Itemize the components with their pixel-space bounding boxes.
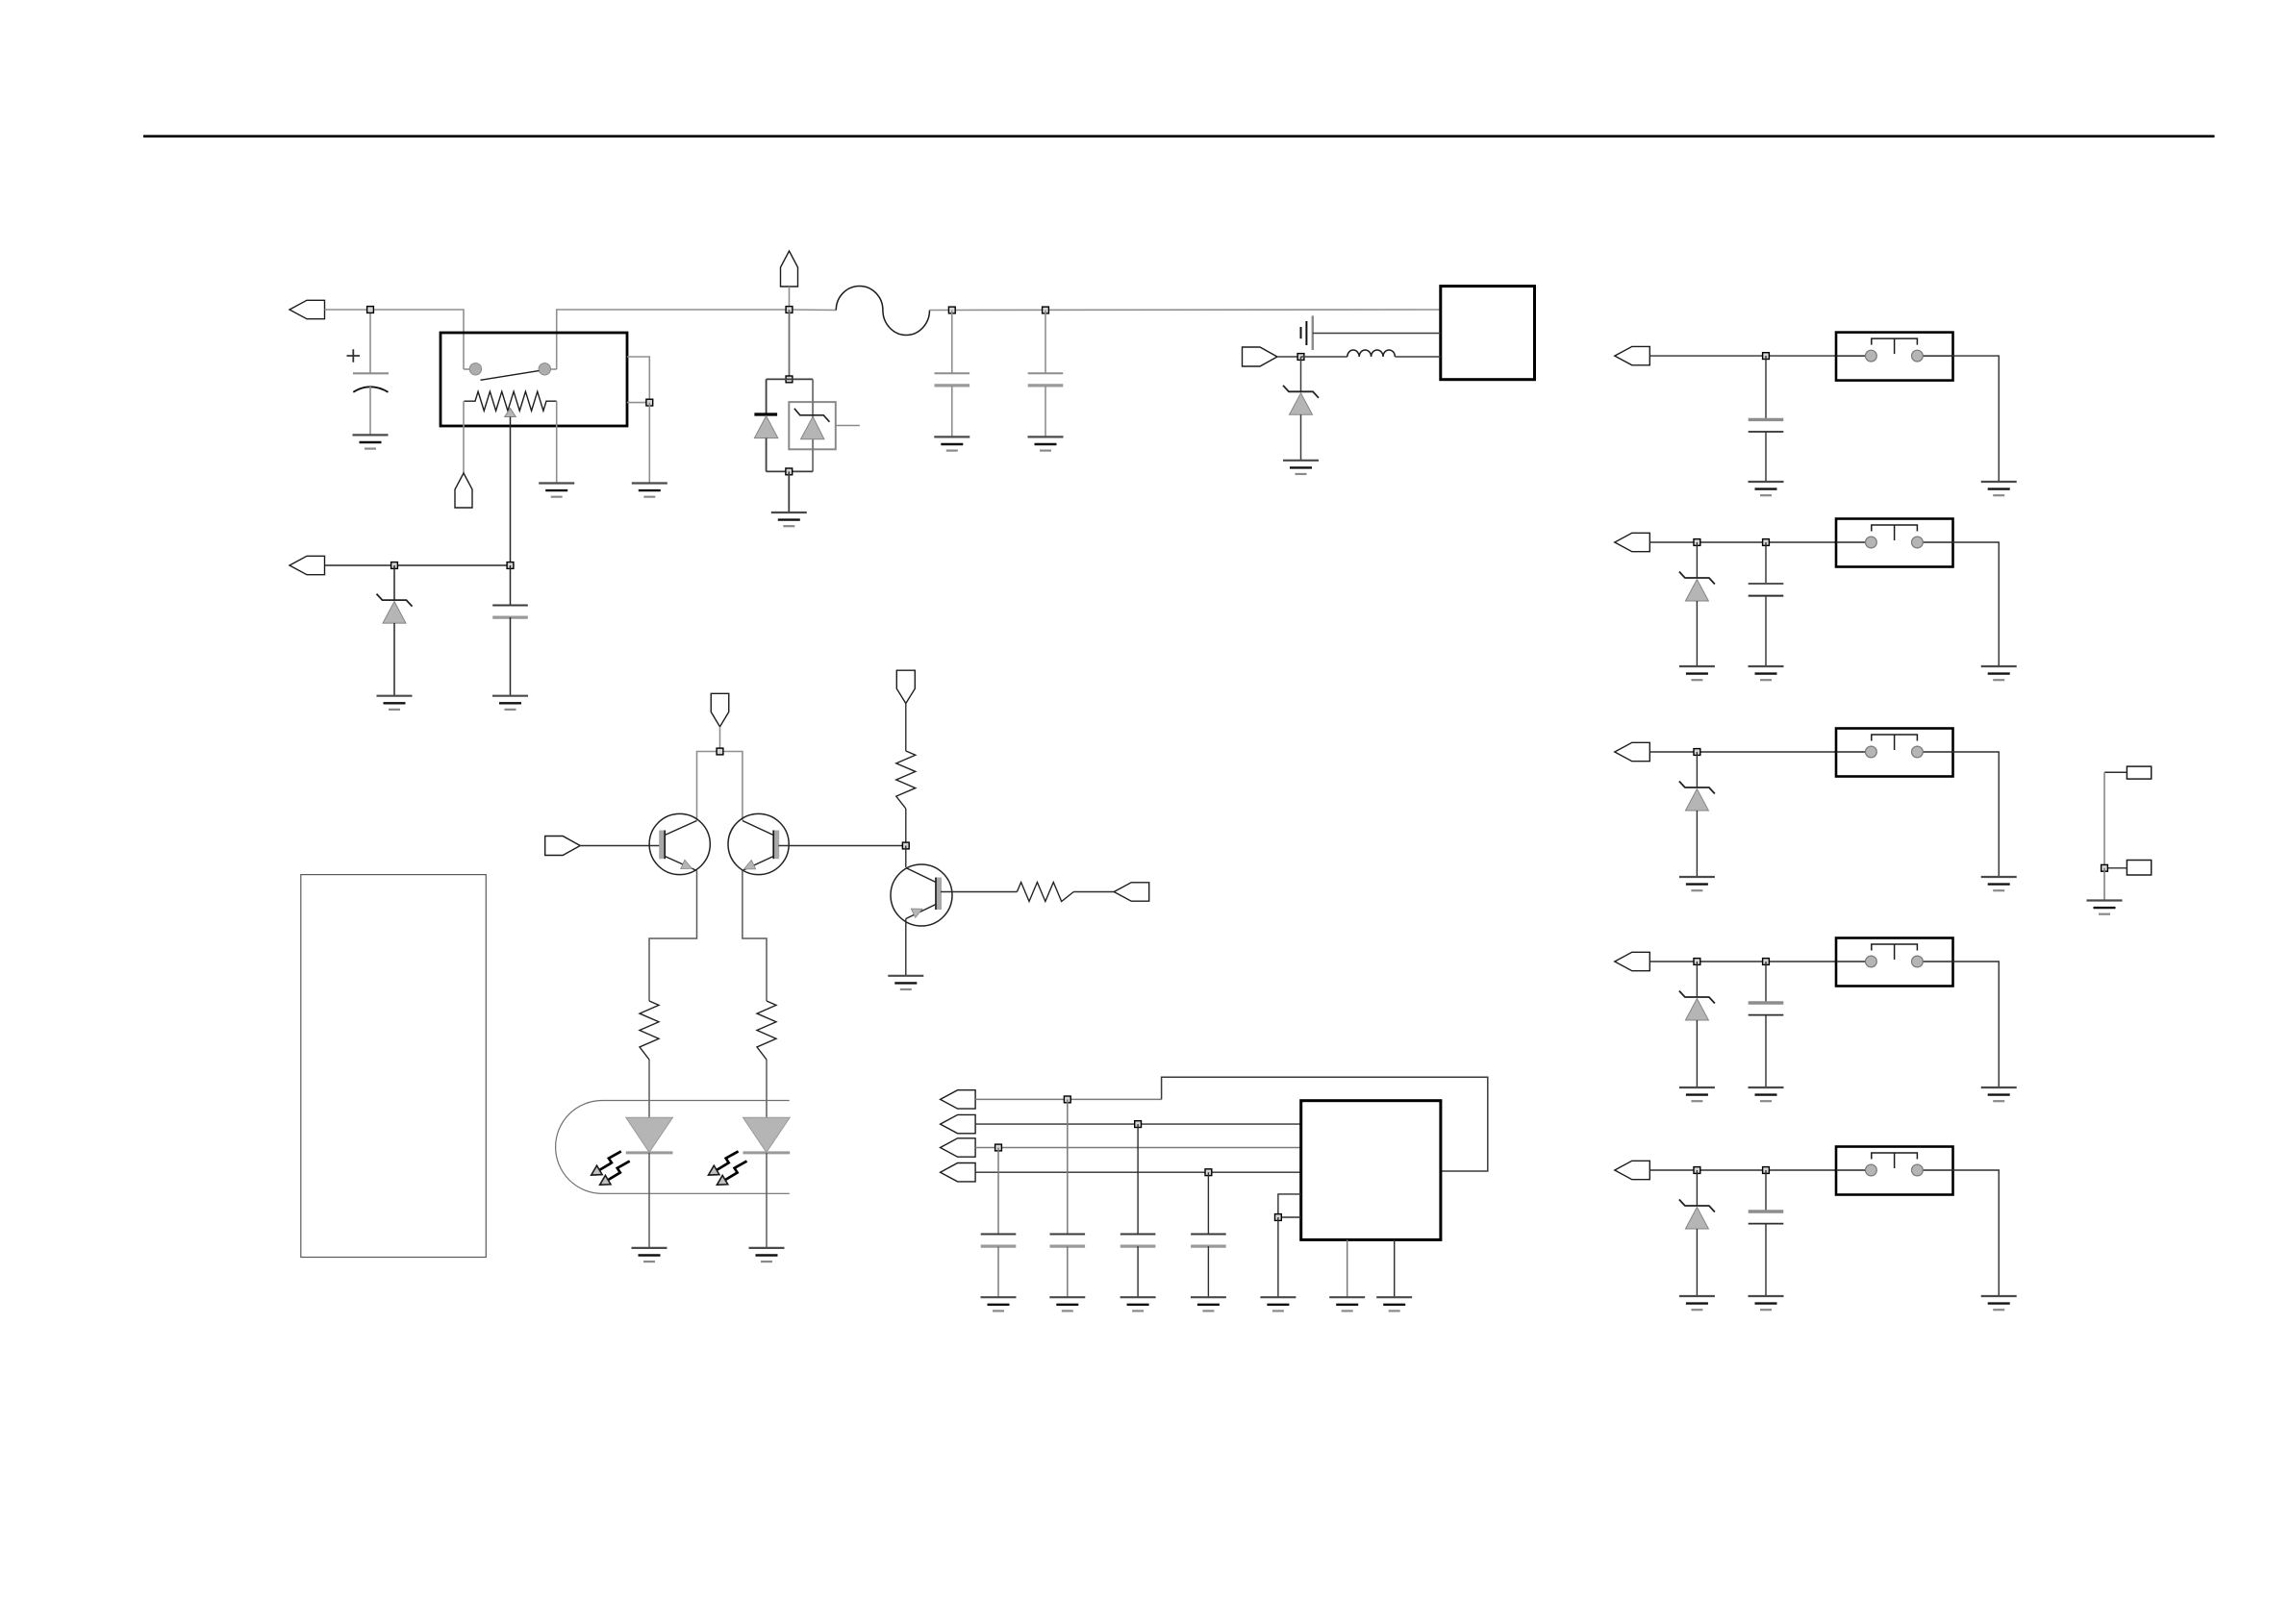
wire C5 <box>997 1148 999 1235</box>
wire C2 to ground <box>510 617 512 696</box>
wire TVS bottom to ground <box>788 471 790 512</box>
ground under LED1 <box>632 1248 667 1262</box>
varistor RV1 element <box>801 416 824 439</box>
ground under DZ5 <box>1679 1296 1715 1310</box>
wire to zener DZ4 <box>1696 962 1698 997</box>
resistor R1 <box>640 1001 659 1060</box>
wire DZ5 to ground <box>1696 1229 1698 1296</box>
zener diode DZ2 <box>1679 572 1715 602</box>
wire C5 to ground <box>997 1246 999 1297</box>
ground under CS4 <box>1749 1087 1784 1101</box>
wire A1 loop around U2 <box>975 1098 1162 1100</box>
wire relay coil right pin to ground <box>556 401 558 483</box>
zener diode D2 <box>377 594 413 624</box>
varistor RV1 zener bar <box>794 409 830 422</box>
wire LED1 to ground <box>648 1153 650 1248</box>
pushbutton switch SW2 <box>1836 519 1953 567</box>
wire to zener DZ3 <box>1696 752 1698 787</box>
node A1/C6 <box>1064 1096 1070 1103</box>
node U2 ground pin <box>1275 1214 1282 1221</box>
wire A4 to U2 <box>975 1171 1301 1173</box>
node P2/zener <box>391 562 398 569</box>
wire Q2 emitter to resistor R2 <box>743 871 767 1002</box>
relay K1 contact left <box>463 363 465 370</box>
wire C6 to ground <box>1067 1246 1069 1297</box>
wire R4 to port P5 <box>1073 891 1114 893</box>
wire node to inductor L1 <box>1301 356 1347 358</box>
wire flag to rail node <box>719 727 721 752</box>
port S3 (switch input) <box>1615 742 1650 761</box>
power flag NET1 (relay pin 1) <box>455 473 472 508</box>
block outline (module area) <box>301 875 487 1258</box>
capacitor C6 <box>1050 1235 1086 1247</box>
power flag VCC3 (pullup) <box>896 670 915 703</box>
wire C1 to ground <box>369 387 371 435</box>
ground under CS5 <box>1749 1296 1784 1310</box>
ground under DZ4 <box>1679 1087 1715 1101</box>
wire to zener DZ5 <box>1696 1170 1698 1206</box>
ground under C1 <box>353 435 389 448</box>
wire node to Q3 collector <box>905 846 907 868</box>
relay K1 box <box>441 333 627 426</box>
wire R2 to LED2 <box>766 1060 768 1117</box>
wire SW1 to ground <box>1953 356 2000 482</box>
power flag VCC2 (LED driver) <box>711 693 729 727</box>
wire CS4 to ground <box>1765 1015 1767 1087</box>
node rail/TVS <box>786 307 793 313</box>
port P5 (base control) <box>1114 883 1149 901</box>
wire port S2 to switch SW2 <box>1649 541 1836 543</box>
wire A2 to U2 <box>975 1123 1301 1125</box>
capacitor CS2 <box>1749 584 1784 596</box>
wire L1 to U1 pin 3 <box>1395 356 1440 358</box>
ground under CS1 <box>1749 482 1784 495</box>
wire P3 to node <box>1277 356 1301 358</box>
wire port S3 to switch SW3 <box>1649 751 1836 753</box>
ground under C6 <box>1049 1297 1085 1311</box>
wire TVS top bar <box>767 378 814 380</box>
resistor R3 <box>896 751 916 809</box>
ground under C3 <box>934 437 969 450</box>
node P3 <box>1297 354 1304 361</box>
wire SW4 to ground <box>1953 962 2000 1087</box>
node TVS bottom <box>786 468 793 475</box>
U2 ground pin stubs <box>1278 1194 1301 1217</box>
wire relay K1 right pin up to top rail <box>557 310 790 363</box>
node S3/zener <box>1694 749 1700 756</box>
pushbutton switch SW5 <box>1836 1147 1953 1195</box>
node VIN1 <box>367 307 374 313</box>
wire U2 gnd pin to ground <box>1277 1217 1279 1297</box>
wire K1 aux to ground <box>648 403 650 484</box>
zener diode DZ4 <box>1679 991 1715 1021</box>
ground under U2 pin B <box>1376 1297 1412 1311</box>
wire to capacitor CS5 <box>1765 1170 1767 1212</box>
wire chassis ground to U1 pin 2 <box>1313 333 1441 335</box>
wire DZ2 to ground <box>1696 601 1698 666</box>
wire to capacitor CS1 <box>1765 356 1767 419</box>
wire DZ3 to ground <box>1696 811 1698 877</box>
relay K1 wiper arrow <box>505 409 516 417</box>
wire node to capacitor C2 <box>510 565 512 606</box>
LED2 <box>743 1117 791 1153</box>
zener diode DZ5 <box>1679 1200 1715 1230</box>
node J1 <box>2102 864 2108 871</box>
wire P4 to Q1 base <box>580 845 660 847</box>
LED1 light arrows <box>592 1151 630 1185</box>
port S1 (switch input) <box>1615 346 1650 364</box>
port A4 <box>941 1163 976 1182</box>
wire relay coil left pin down to flag <box>463 401 465 473</box>
wire C4 to ground <box>1045 386 1046 437</box>
node A2/C7 <box>1135 1121 1142 1128</box>
capacitor CS4 <box>1749 1003 1784 1015</box>
ground under D3 <box>1283 461 1319 474</box>
inductor L1 <box>1347 350 1396 357</box>
port S4 (switch input) <box>1615 952 1650 970</box>
ground under C8 <box>1191 1297 1226 1311</box>
wire zener D2 to ground <box>393 623 395 696</box>
LED1 <box>626 1117 673 1153</box>
node S2/zener <box>1694 539 1700 546</box>
port P4 (LED drive input) <box>545 837 581 856</box>
wire Q2 base to node <box>778 845 905 847</box>
ground under DZ3 <box>1679 877 1715 890</box>
port P3 (supply to U1) <box>1243 347 1278 366</box>
wire D1 to TVS bottom bar <box>766 438 768 472</box>
wire C8 <box>1207 1172 1209 1234</box>
relay K1 switch arm <box>481 371 540 381</box>
node S4/zener <box>1694 959 1700 965</box>
ground under relay right coil pin <box>539 484 574 497</box>
ground under J1 <box>2087 901 2123 914</box>
capacitor C7 <box>1120 1235 1156 1247</box>
capacitor C3 <box>935 373 970 386</box>
wire J1 to ground <box>2103 868 2105 901</box>
ground under TVS pair <box>771 512 807 526</box>
fuse F1 (S-curve) <box>836 286 929 335</box>
LED2 light arrows <box>709 1151 747 1185</box>
ground under Q3 <box>888 976 923 989</box>
wire SW5 to ground <box>1953 1170 2000 1296</box>
capacitor CS1 <box>1749 419 1784 432</box>
transistor Q3 <box>891 864 952 926</box>
connector J1 pin 2 <box>2127 861 2151 876</box>
wire flag to resistor R3 <box>905 704 907 751</box>
capacitor C2 <box>492 606 528 618</box>
node S1/cap <box>1763 353 1770 360</box>
transistor Q2 <box>728 813 789 874</box>
varistor RV1 box <box>789 402 836 449</box>
node Q2/Q3 <box>902 842 909 849</box>
wire to zener DZ2 <box>1696 542 1698 578</box>
wire D3 to ground <box>1300 414 1302 461</box>
power flag VCC (rail) <box>781 251 798 287</box>
wire R1 to LED1 <box>648 1060 650 1117</box>
relay K1 right pin stubs <box>627 357 649 403</box>
node rail/C3 <box>948 307 955 313</box>
port A1 <box>941 1090 976 1109</box>
wire SW3 to ground <box>1953 752 2000 877</box>
wire TVS bottom bar <box>767 470 814 472</box>
wire TVS left branch down <box>766 379 768 414</box>
diode D1 cathode bar <box>754 412 777 415</box>
node rail/C4 <box>1043 307 1049 313</box>
wire port S1 to switch SW1 <box>1649 355 1836 357</box>
capacitor CS5 <box>1749 1212 1784 1224</box>
node K1 aux <box>646 399 653 406</box>
wire CS5 to ground <box>1765 1224 1767 1296</box>
capacitor C4 <box>1028 373 1064 386</box>
node S4/cap <box>1763 959 1770 965</box>
relay K1 contact right <box>556 363 558 370</box>
ground right of SW1 <box>1981 482 2017 495</box>
ground under U2 pin A <box>1329 1297 1365 1311</box>
ground right of SW2 <box>1981 666 2017 680</box>
wire node to zener D2 <box>393 565 395 600</box>
LED package outline <box>556 1101 790 1194</box>
ground under zener D2 <box>377 696 413 710</box>
diode D1 <box>754 416 777 438</box>
port S2 (switch input) <box>1615 533 1650 551</box>
node S5/cap <box>1763 1167 1770 1174</box>
title block top rule <box>143 135 2215 137</box>
connector J1 pin 1 <box>2127 766 2151 779</box>
ground right of SW4 <box>1981 1087 2017 1101</box>
wire J1 pin1 <box>2104 771 2127 773</box>
capacitor C1 electrolytic + wire <box>369 310 371 373</box>
zener diode DZ3 <box>1679 782 1715 812</box>
resistor R4 <box>1017 883 1073 902</box>
IC U2 <box>1301 1101 1441 1240</box>
ground under C2 <box>492 696 528 710</box>
wire to capacitor CS2 <box>1765 542 1767 584</box>
wire TVS right branch <box>812 379 814 471</box>
ground under C4 <box>1028 437 1064 450</box>
ground under relay aux pin <box>632 484 667 497</box>
port A3 <box>941 1138 976 1157</box>
ground under CS2 <box>1749 666 1784 680</box>
pushbutton switch SW3 <box>1836 729 1953 777</box>
wire port S4 to switch SW4 <box>1649 961 1836 962</box>
ground under LED2 <box>749 1248 785 1262</box>
pushbutton switch SW1 <box>1836 333 1953 381</box>
node A3/C5 <box>995 1144 1002 1151</box>
wire DZ4 to ground <box>1696 1020 1698 1087</box>
resistor R2 <box>757 1001 776 1060</box>
wire node to relay K1 left pin <box>370 310 464 363</box>
wire rail node to fuse F1 <box>790 309 837 312</box>
wire R3 to node <box>905 809 907 846</box>
zener diode D3 <box>1283 386 1319 415</box>
port P1 (power input, left) <box>290 300 325 318</box>
wire CS2 to ground <box>1765 596 1767 666</box>
wire SW2 to ground <box>1953 542 2000 666</box>
wire LED2 to ground <box>766 1153 768 1248</box>
U2 bottom pin 2 <box>1394 1239 1396 1297</box>
wire C6 <box>1067 1099 1069 1234</box>
node rail <box>717 748 723 755</box>
relay K1 coil <box>465 391 557 411</box>
node S5/zener <box>1694 1167 1700 1174</box>
wire flag to rail node <box>789 287 791 310</box>
ground right of SW3 <box>1981 877 2017 890</box>
ground under U2 left pin <box>1260 1297 1296 1311</box>
wire C7 to ground <box>1137 1246 1139 1297</box>
wire Q3 emitter to ground <box>905 919 907 976</box>
node TVS top <box>786 376 793 383</box>
wire P2 to node <box>325 564 511 566</box>
wire relay wiper down <box>510 417 512 566</box>
wire node to zener D3 <box>1300 357 1302 391</box>
ground under DZ2 <box>1679 666 1715 680</box>
wire port S5 to switch SW5 <box>1649 1169 1836 1171</box>
wire Q3 base to resistor R4 <box>941 891 1017 893</box>
wire P1 to node VIN1 <box>325 309 371 311</box>
port S5 (switch input) <box>1615 1161 1650 1179</box>
capacitor C1 curved bottom plate <box>353 387 388 392</box>
collector rail <box>697 752 743 821</box>
wire node to capacitor C4 <box>1045 311 1046 374</box>
port A2 <box>941 1114 976 1133</box>
ground under C5 <box>981 1297 1017 1311</box>
ground under C7 <box>1120 1297 1156 1311</box>
pushbutton switch SW4 <box>1836 938 1953 987</box>
ground right of SW5 <box>1981 1296 2017 1310</box>
node P2/cap <box>507 562 514 569</box>
wire to capacitor CS4 <box>1765 962 1767 1003</box>
varistor RV1 stub <box>836 425 860 427</box>
transistor Q1 <box>649 813 710 874</box>
wire node to capacitor C3 <box>951 311 953 374</box>
capacitor C8 <box>1191 1235 1226 1247</box>
capacitor C1 top plate <box>353 372 389 374</box>
wire CS1 to ground <box>1765 432 1767 482</box>
capacitor C5 <box>981 1235 1017 1247</box>
wire J1 pin2 <box>2104 867 2127 869</box>
U2 bottom pin 1 <box>1347 1239 1348 1297</box>
wire C3 to ground <box>951 386 953 437</box>
wire A3 to U2 <box>975 1147 1301 1149</box>
capacitor C1 plus sign <box>347 349 361 362</box>
wire fuse to IC U1 <box>930 309 1441 312</box>
IC U1 (regulator) <box>1441 287 1535 380</box>
wire Q1 emitter to resistor R1 <box>649 871 697 1002</box>
wire C8 to ground <box>1207 1246 1209 1297</box>
chassis ground symbol (rotated) <box>1301 315 1313 350</box>
wire rail to TVS pair <box>789 310 791 379</box>
node A4/C8 <box>1205 1169 1212 1176</box>
node S2/cap <box>1763 539 1770 546</box>
port P2 (relay control input) <box>290 556 325 574</box>
wire C7 <box>1137 1124 1139 1234</box>
